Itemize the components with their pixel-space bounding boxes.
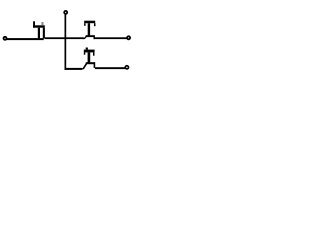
terminal OUT1 (right upper port) <box>127 36 130 39</box>
transistor M3 <box>82 48 95 70</box>
wire W1 (left input wire) <box>6 38 44 40</box>
wire W4a (bottom rail left segment) <box>65 68 83 70</box>
transistor M1 <box>33 21 45 40</box>
wire W2b (node wire from M2 to right port) <box>94 37 128 39</box>
wire W4b (bottom rail right segment to lower right port) <box>95 67 126 69</box>
terminal OUT2 (right lower port) <box>125 66 128 69</box>
wire W3 (vertical wire from top port) <box>65 14 67 70</box>
terminal IN (left port) <box>4 37 7 40</box>
terminal TOP (control port) <box>64 11 67 14</box>
transistor M2 <box>83 21 96 39</box>
wire W2a (node wire from M1 to M2) <box>45 37 84 39</box>
